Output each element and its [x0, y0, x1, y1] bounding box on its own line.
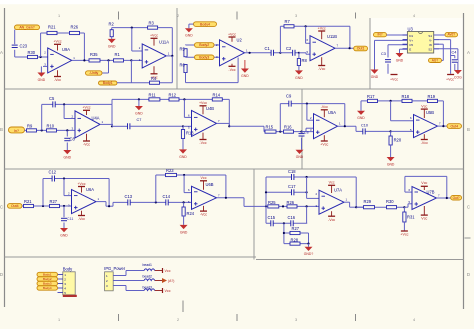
- op-amp U4A: [75, 111, 100, 138]
- junction feedback/output: [83, 59, 85, 61]
- wire step down: [263, 126, 265, 131]
- tile seam horizontal 3 right: [256, 259, 464, 261]
- svg-text:R26: R26: [287, 200, 295, 205]
- svg-text:GND: GND: [295, 76, 303, 80]
- capacitor C8 row2: [64, 138, 70, 141]
- wire U3 pin8 to AVdd label: [434, 34, 445, 36]
- svg-text:4: 4: [413, 14, 415, 18]
- tile seam vertical row3: [253, 169, 255, 260]
- svg-text:A: A: [0, 50, 3, 55]
- wire loop up to pin: [237, 58, 239, 83]
- U3 left pin stub 4: [403, 48, 408, 50]
- op-amp U11A: [142, 44, 166, 68]
- out step down: [105, 202, 107, 207]
- svg-text:AN_Gen?: AN_Gen?: [19, 26, 34, 30]
- U3 right pin stub 6: [434, 43, 439, 45]
- wire U9A -Vcc stem: [57, 70, 59, 76]
- ground under C8 stage3: [296, 150, 304, 159]
- junction U11A output: [171, 55, 173, 57]
- wire feedback down to out: [228, 99, 230, 126]
- op-amp U9A: [48, 48, 72, 73]
- wire into U4A in-: [64, 118, 75, 120]
- junction in+ / Body1: [130, 59, 132, 61]
- wire R13 top: [182, 126, 184, 129]
- svg-text:R26: R26: [71, 25, 79, 30]
- svg-text:-Vcc: -Vcc: [318, 67, 325, 71]
- resistor R5: [184, 49, 187, 57]
- wire into U7A in-: [307, 197, 319, 199]
- svg-text:U2: U2: [237, 38, 243, 43]
- svg-text:IPG_Power: IPG_Power: [104, 266, 126, 271]
- wire up to C5: [41, 104, 43, 130]
- svg-text:Vcc: Vcc: [329, 181, 335, 185]
- power tick Vcc3: [162, 288, 164, 293]
- wire pin5 down to COG: [457, 49, 459, 70]
- jog up: [407, 204, 409, 207]
- wire C15/C16 line: [266, 222, 307, 224]
- wire into U4B in+: [183, 125, 192, 127]
- svg-text:U5A: U5A: [328, 110, 336, 115]
- svg-text:C10: C10: [361, 124, 368, 128]
- svg-text:R27: R27: [292, 226, 300, 231]
- svg-text:-Vcc: -Vcc: [83, 143, 90, 147]
- junction C9 drop: [279, 131, 281, 133]
- wire R2 top: [111, 28, 113, 30]
- wire pin7 down to +Vcc: [450, 40, 452, 74]
- ground T tap: [135, 106, 143, 115]
- svg-text:V-: V-: [429, 39, 432, 43]
- capacitor C15: [271, 220, 274, 226]
- svg-text:-Vcc: -Vcc: [54, 78, 61, 82]
- resistor R2: [110, 30, 113, 37]
- svg-text:Out4: Out4: [11, 204, 19, 208]
- wire down to U6A in-: [63, 179, 65, 196]
- svg-text:GND: GND: [296, 155, 304, 159]
- port In?: [9, 127, 25, 133]
- resistor R1: [114, 59, 124, 62]
- svg-text:3: 3: [295, 318, 297, 322]
- capacitor C16: [291, 220, 294, 226]
- wire U7A -Vcc stem: [331, 211, 333, 216]
- svg-text:R19: R19: [428, 94, 436, 99]
- svg-text:3: 3: [295, 14, 297, 18]
- junction node stage1 input: [40, 56, 42, 58]
- svg-text:R27: R27: [50, 199, 58, 204]
- wire U5B -Vcc stem: [423, 134, 425, 139]
- resistor R8: [297, 59, 300, 66]
- junction R28 / GND: [307, 243, 309, 245]
- svg-text:R8: R8: [302, 58, 308, 63]
- wire In? to U4A in+: [25, 129, 76, 131]
- junction U2 out: [249, 52, 251, 54]
- bottom border tick 1: [118, 314, 120, 321]
- ground Body4: [185, 28, 193, 37]
- svg-text:+Vcc: +Vcc: [150, 34, 158, 38]
- svg-text:A: A: [467, 50, 470, 55]
- svg-text:Out4: Out4: [450, 124, 458, 128]
- wire down to U5A in-: [306, 104, 308, 121]
- svg-text:GND: GND: [241, 74, 249, 78]
- svg-text:C1: C1: [265, 46, 271, 51]
- wire feedback up: [40, 33, 42, 57]
- svg-text:Out1: Out1: [357, 47, 365, 51]
- wire into U11B in+: [306, 53, 310, 55]
- svg-text:C2: C2: [286, 46, 292, 51]
- resistor R17: [368, 99, 378, 102]
- wire C4 top: [454, 56, 456, 59]
- wire Body4 down: [188, 24, 190, 28]
- wire U7A Vcc stem: [331, 186, 333, 194]
- svg-text:-Vcc: -Vcc: [321, 105, 328, 109]
- svg-text:-Vcc: -Vcc: [421, 141, 428, 145]
- wire loop right: [308, 233, 310, 244]
- capacitor C9: [289, 100, 292, 106]
- wire R8 top: [298, 53, 300, 58]
- svg-text:Body4: Body4: [200, 22, 210, 26]
- svg-text:C23: C23: [20, 44, 28, 49]
- junction R23 drop: [155, 201, 157, 203]
- junction U5B out: [442, 125, 444, 127]
- step up: [112, 202, 114, 206]
- svg-text:1: 1: [58, 14, 60, 18]
- wire U9A in+ stub: [43, 65, 48, 67]
- svg-text:R9: R9: [27, 123, 33, 128]
- power +Vcc U4A: [82, 106, 90, 111]
- junction T gnd tap: [138, 98, 140, 100]
- port Out4 row2: [447, 124, 462, 129]
- svg-text:R31: R31: [407, 215, 415, 220]
- svg-text:U3: U3: [408, 26, 414, 31]
- wire node to U9A in-: [15, 56, 48, 58]
- svg-text:bead3: bead3: [143, 286, 153, 290]
- wire U6B Vcc stem: [203, 181, 205, 190]
- wire C5 feedback line: [42, 103, 112, 105]
- svg-text:U7B: U7B: [427, 189, 435, 194]
- wire pin3 down to C3: [387, 45, 389, 58]
- junction U6A out: [108, 205, 110, 207]
- capacitor C14: [166, 199, 169, 205]
- svg-text:R25: R25: [268, 200, 276, 205]
- wire left vertical up: [265, 177, 267, 206]
- power Vcc U7A top: [328, 181, 335, 186]
- wire R5-R6 node: [185, 56, 187, 59]
- wire feedback down to out: [349, 26, 351, 48]
- wire AN_Gen? down to C23: [14, 30, 16, 45]
- power bar right: [447, 74, 454, 76]
- wire main row3 stage3: [244, 205, 319, 207]
- wire out: [106, 205, 113, 207]
- wire R8 to GND: [298, 66, 300, 71]
- wire to AGND label: [442, 59, 444, 61]
- junction C17 right: [306, 191, 308, 193]
- capacitor C10: [363, 128, 366, 134]
- right margin tick: [465, 237, 471, 239]
- wire C4 to +Vcc line: [451, 55, 455, 57]
- connector IPG_Power: [105, 272, 114, 291]
- resistor R35: [89, 59, 100, 62]
- resistor R13: [181, 130, 184, 139]
- svg-text:Body1: Body1: [43, 273, 52, 277]
- svg-text:Out?: Out?: [453, 196, 460, 200]
- net label Body2 row4: [37, 277, 58, 281]
- junction C1/C2/feedback: [279, 52, 281, 54]
- svg-text:U11B: U11B: [327, 34, 337, 39]
- svg-text:+Vcc: +Vcc: [77, 182, 85, 186]
- wire C1 to C2: [280, 52, 299, 54]
- resistor R27 parallel: [290, 231, 300, 234]
- wire R23 down to out: [225, 175, 227, 198]
- junction C9 line / in-: [306, 103, 308, 105]
- svg-text:IN?: IN?: [378, 33, 383, 37]
- net label AVdd: [445, 33, 458, 37]
- svg-text:C: C: [0, 205, 3, 210]
- wire U6B output: [217, 197, 245, 199]
- ground AGND arrow: [162, 278, 167, 283]
- wire U3 pin5: [434, 48, 458, 50]
- capacitor C3: [385, 59, 391, 62]
- svg-text:+Vcc: +Vcc: [199, 101, 207, 105]
- capacitor C8 stage3: [298, 133, 304, 136]
- wire feedback down to U11A out: [171, 28, 173, 56]
- wire U6A out: [96, 201, 106, 203]
- svg-text:C: C: [467, 205, 470, 210]
- power +Vcc U5A bottom: [320, 141, 328, 147]
- wire into U11A in+: [131, 59, 142, 61]
- power -Vcc U5A top: [321, 105, 328, 110]
- wire to U2 in-: [186, 44, 220, 46]
- wire up to C12: [42, 179, 44, 207]
- wire loop right down: [446, 176, 448, 198]
- out jog: [228, 123, 230, 126]
- wire R27 branch: [284, 232, 309, 234]
- wire U11B -Vcc stem: [321, 57, 323, 65]
- resistor R21: [47, 31, 57, 34]
- wire U4A -Vcc stem: [86, 134, 88, 141]
- svg-text:R3: R3: [149, 21, 155, 26]
- wire step down before C10: [355, 126, 357, 131]
- wire R24 to GND: [183, 216, 185, 225]
- tile seam horizontal 1: [5, 88, 464, 90]
- svg-text:R1: R1: [115, 52, 121, 57]
- svg-text:+Vcc: +Vcc: [318, 26, 326, 30]
- resistor R19: [428, 99, 438, 102]
- svg-text:U4B: U4B: [206, 106, 214, 111]
- power Vcc U5B top: [421, 105, 428, 110]
- capacitor C1: [271, 50, 274, 56]
- svg-text:+Vcc: +Vcc: [400, 233, 408, 237]
- svg-text:R12: R12: [169, 92, 177, 97]
- op-amp U5A: [314, 114, 338, 139]
- wire R7 feedback line: [280, 25, 350, 27]
- svg-text:R7: R7: [285, 19, 291, 24]
- wire right vertical: [306, 177, 308, 198]
- jog up to in+: [305, 128, 307, 131]
- wire to U11B in+: [299, 52, 306, 54]
- junction C12 line / in-: [63, 177, 65, 179]
- svg-text:D: D: [0, 272, 3, 277]
- wire U6A -Vcc stem: [81, 211, 83, 216]
- resistor R26: [70, 31, 80, 34]
- wire U2 output: [245, 52, 281, 54]
- svg-text:GND: GND: [64, 155, 72, 159]
- ferrite bead2: [144, 279, 155, 281]
- power -Vcc U4B: [199, 140, 206, 146]
- ferrite bead1: [144, 269, 155, 271]
- wire down to U4B in-: [183, 99, 185, 117]
- wire input row3: [22, 205, 72, 207]
- svg-text:W: W: [429, 43, 432, 47]
- wire bottom loop U2: [186, 82, 239, 84]
- wire down to U6B in-: [183, 175, 185, 193]
- svg-text:C13: C13: [125, 194, 133, 199]
- svg-text:C3: C3: [381, 52, 386, 56]
- wire C18 down to out: [355, 177, 357, 207]
- junction R20 tap: [390, 130, 392, 132]
- wire C23 to node: [14, 50, 16, 57]
- wire into C10: [356, 130, 391, 132]
- svg-text:U6A: U6A: [86, 187, 94, 192]
- wire T left end down: [360, 101, 362, 111]
- wire cap top: [301, 132, 303, 133]
- junction -Unity tap: [107, 59, 109, 61]
- capacitor C23: [12, 45, 18, 48]
- svg-text:GND: GND: [135, 111, 143, 115]
- net label -Unity: [86, 71, 103, 75]
- wire down to -Unity: [108, 60, 110, 73]
- wire R24 top: [183, 202, 185, 207]
- junction twin-T left: [265, 205, 267, 207]
- svg-text:R21: R21: [24, 199, 32, 204]
- resistor R30 row3: [387, 206, 397, 209]
- svg-text:R21: R21: [48, 25, 56, 30]
- junction U6B out: [225, 197, 227, 199]
- net label Body4: [194, 22, 217, 27]
- wire C12 feedback line: [43, 178, 109, 180]
- junction C5 line / in-: [63, 103, 65, 105]
- svg-text:C12: C12: [49, 169, 57, 174]
- wire out to C7: [112, 125, 127, 127]
- power -Vcc U9A: [54, 77, 61, 83]
- resistor R12: [169, 98, 179, 101]
- svg-text:C15: C15: [268, 215, 276, 220]
- resistor R10: [47, 129, 57, 132]
- wire U4B out right: [229, 125, 264, 127]
- svg-text:R2: R2: [109, 22, 115, 27]
- capacitor C12: [52, 175, 55, 181]
- svg-text:Body3: Body3: [43, 282, 52, 286]
- op-amp U6A: [72, 190, 97, 214]
- resistor R29: [364, 206, 375, 209]
- svg-text:R4: R4: [151, 76, 157, 81]
- jog into in+: [305, 53, 307, 54]
- junction T line / in-: [183, 98, 185, 100]
- tile seam horizontal 3 left: [5, 256, 257, 258]
- wire cap to GND: [301, 138, 303, 150]
- svg-text:GND: GND: [180, 230, 188, 234]
- wire U2 +Vcc stem: [231, 37, 233, 42]
- svg-text:4: 4: [413, 318, 415, 322]
- svg-text:GND: GND: [396, 58, 404, 62]
- wire into U6B in-: [184, 192, 191, 194]
- junction in+ / C16: [306, 205, 308, 207]
- wire Body1 to output loop: [117, 82, 172, 84]
- wire bead2 to AGND: [155, 280, 162, 282]
- ground R13: [179, 149, 187, 158]
- stub: [111, 124, 113, 126]
- power +Vcc U6A: [77, 182, 85, 187]
- wire U11A +Vcc stem: [153, 39, 155, 46]
- svg-text:R30: R30: [28, 50, 36, 55]
- svg-text:GND: GND: [387, 162, 395, 166]
- tile seam horizontal 2: [5, 168, 464, 170]
- resistor R28: [290, 242, 300, 245]
- svg-text:GND: GND: [179, 155, 187, 159]
- power -Vcc U2: [228, 66, 235, 72]
- wire into U5B in-: [391, 120, 414, 122]
- wire stage2 row3: [113, 201, 192, 203]
- svg-text:+Vcc: +Vcc: [53, 40, 61, 44]
- net label Body4 row4: [37, 286, 58, 290]
- power -Vcc U5B: [421, 140, 428, 146]
- sheet border left: [4, 8, 6, 307]
- junction R24 tap: [183, 201, 185, 203]
- stub: [185, 44, 187, 47]
- junction R23 line / in-: [183, 174, 185, 176]
- svg-text:U7A: U7A: [334, 187, 342, 192]
- wire into U5A in+: [306, 127, 314, 129]
- wire into U7B in-: [405, 191, 412, 193]
- lighter tile background behind U3: [371, 18, 464, 89]
- wire U7B -Vcc stem: [423, 206, 425, 215]
- wire C3 to +Vcc: [387, 64, 389, 74]
- svg-text:1: 1: [58, 318, 60, 322]
- junction R31 tap: [403, 206, 405, 208]
- wire seg joining verticals: [111, 99, 113, 104]
- power +Vcc U4B: [199, 101, 207, 106]
- junction T line / in-: [390, 100, 392, 102]
- junction loop left mid: [283, 232, 285, 234]
- svg-text:Body2: Body2: [43, 277, 52, 281]
- svg-text:Body4: Body4: [43, 286, 52, 290]
- junction C15/C16 / R27 loop: [283, 222, 285, 224]
- svg-text:C4: C4: [452, 51, 457, 55]
- wire to bead1: [126, 270, 144, 272]
- wire loop left down: [404, 176, 406, 192]
- wire U5B output: [438, 125, 448, 127]
- svg-text:R11: R11: [149, 92, 157, 97]
- svg-text:R30: R30: [386, 199, 394, 204]
- svg-text:R13: R13: [186, 131, 194, 136]
- wire U11B output: [335, 47, 354, 49]
- wire to bead3: [126, 290, 144, 292]
- power -Vcc U7A: [328, 216, 335, 222]
- svg-text:+Vcc: +Vcc: [228, 32, 236, 36]
- svg-text:Body2: Body2: [199, 43, 209, 47]
- wire Body4 left: [189, 23, 194, 25]
- svg-text:U4A: U4A: [92, 116, 100, 121]
- resistor R3: [148, 26, 158, 29]
- wire into U6A in-: [64, 195, 72, 197]
- wire to U2 in+: [186, 56, 220, 58]
- svg-text:C18: C18: [288, 169, 296, 174]
- power -Vcc U11A: [150, 74, 157, 80]
- wire IPG pin1: [113, 275, 126, 277]
- ground U2 pin: [241, 69, 249, 78]
- junction node A row2: [41, 129, 43, 131]
- svg-text:C17: C17: [288, 184, 296, 189]
- bottom border tick 2: [236, 314, 238, 321]
- junction R2/R3/in-: [131, 27, 133, 29]
